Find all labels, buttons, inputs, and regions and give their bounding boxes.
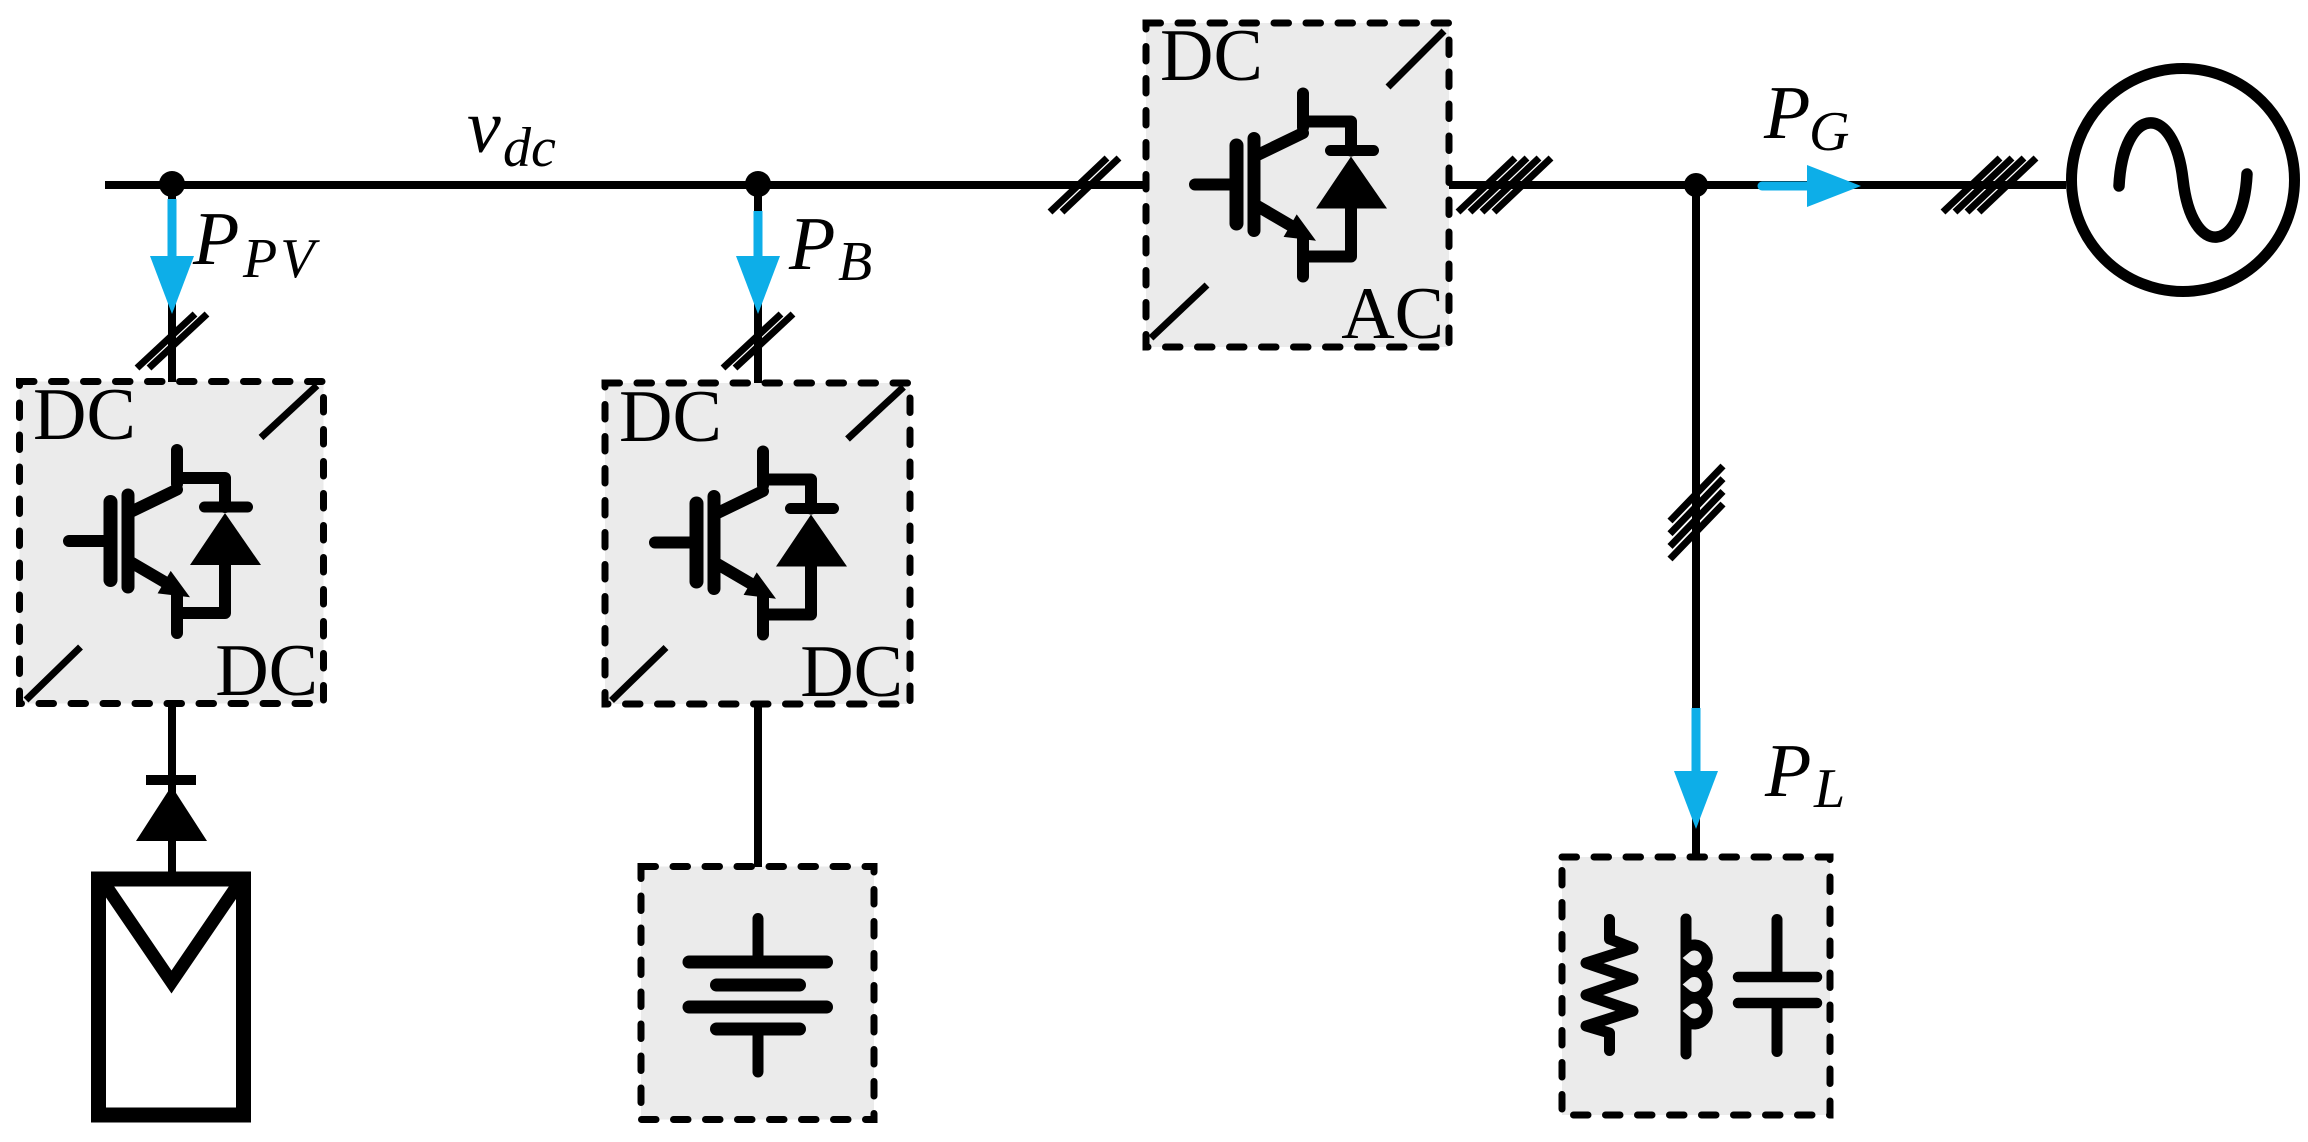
- IGBT Q3 inside U3: [1195, 94, 1387, 277]
- corner slash U1 top-right: [261, 386, 317, 438]
- capacitor C in load: [1738, 920, 1817, 1052]
- svg-text:dc: dc: [503, 117, 556, 179]
- battery B1: [689, 919, 827, 1073]
- slash marks: AC bus after inverter (4 wires): [1458, 158, 1551, 212]
- node: load tap junction: [1684, 173, 1708, 197]
- slash marks: battery branch (2 wires): [723, 314, 793, 368]
- wire: U1 to diode and PV panel: [168, 703, 176, 876]
- IGBT Q2 inside U2: [655, 452, 847, 635]
- slash marks: DC bus (2 wires): [1050, 158, 1119, 212]
- slash marks: load branch (4 wires): [1670, 466, 1723, 559]
- grid source G (AC source circle): [2072, 69, 2295, 292]
- wire: U2 to battery: [754, 704, 762, 867]
- converter U2 (battery DC/DC) dashed box: [605, 383, 910, 704]
- arrow P_L (blue power flow down): [1674, 708, 1718, 829]
- label P_PV: [192, 197, 320, 290]
- svg-text:L: L: [1813, 758, 1845, 820]
- wire: AC bus right segment: [1449, 181, 2066, 189]
- svg-text:DC: DC: [215, 630, 318, 712]
- svg-text:DC: DC: [619, 376, 722, 458]
- svg-text:v: v: [467, 85, 501, 169]
- slash marks: AC bus before grid (4 wires): [1943, 158, 2036, 212]
- inductor L in load: [1686, 919, 1707, 1054]
- diode D1 on PV branch: [136, 780, 207, 841]
- corner slash U3 bottom-left: [1151, 285, 1207, 338]
- svg-text:DC: DC: [800, 631, 903, 713]
- corner slash U1 bottom-left: [26, 647, 81, 700]
- svg-text:P: P: [1763, 71, 1810, 155]
- node: battery tap junction: [745, 171, 771, 197]
- IGBT Q1 inside U1: [69, 450, 261, 633]
- battery box: [641, 867, 874, 1120]
- wire: PV branch vertical: [168, 184, 176, 382]
- slash marks: PV branch (2 wires): [137, 314, 207, 368]
- svg-text:B: B: [838, 231, 872, 293]
- label P_L: [1764, 729, 1845, 820]
- load box: [1562, 857, 1830, 1115]
- corner slash U3 top-right: [1388, 31, 1444, 87]
- wire: load branch vertical: [1692, 185, 1700, 858]
- svg-text:P: P: [1764, 729, 1811, 813]
- arrow P_G (blue power flow right): [1762, 165, 1861, 207]
- svg-text:DC: DC: [33, 374, 136, 456]
- label P_G: [1763, 71, 1849, 163]
- label v_dc: [467, 85, 556, 179]
- node: PV tap junction: [159, 171, 185, 197]
- corner slash U2 top-right: [848, 387, 904, 439]
- PV panel: [99, 879, 244, 1115]
- converter U3 (DC/AC inverter) dashed box: [1146, 23, 1449, 347]
- svg-text:AC: AC: [1341, 273, 1444, 355]
- converter U1 (PV DC/DC) dashed box: [20, 382, 324, 704]
- corner slash U2 bottom-left: [612, 648, 667, 701]
- wire: DC bus left segment: [105, 181, 1146, 189]
- svg-text:DC: DC: [1160, 15, 1263, 97]
- svg-text:G: G: [1809, 101, 1849, 163]
- resistor R in load: [1586, 920, 1633, 1051]
- arrow P_B (blue power flow down): [736, 211, 780, 314]
- label P_B: [788, 202, 872, 293]
- wire: battery branch vertical: [754, 184, 762, 383]
- svg-text:P: P: [788, 202, 835, 286]
- svg-text:P: P: [192, 197, 239, 281]
- arrow P_PV (blue power flow down): [150, 199, 194, 314]
- svg-text:PV: PV: [242, 228, 320, 290]
